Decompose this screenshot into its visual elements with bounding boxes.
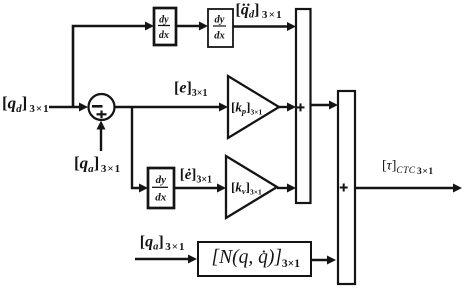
- wire block1 to block2: [176, 22, 208, 31]
- wire e branch down to dy/dx U3: [132, 107, 148, 193]
- summing block S1: [296, 9, 311, 203]
- summing junction: [89, 94, 115, 120]
- wire qa to N block: [135, 255, 197, 264]
- label qdd: [236, 1, 283, 21]
- svg-text:dx: dx: [155, 191, 167, 203]
- block dy/dx U3: [148, 168, 174, 208]
- wire tau output: [355, 184, 462, 193]
- plus S2: [340, 184, 348, 192]
- svg-text:dx: dx: [159, 30, 169, 41]
- svg-text:dy: dy: [215, 15, 225, 26]
- wire qdd to summing block S1: [233, 22, 296, 31]
- block dy/dx U1: [154, 8, 176, 45]
- svg-text:dx: dx: [214, 31, 225, 42]
- node qd label: [2, 94, 50, 116]
- wire e: [115, 103, 229, 112]
- label e: [174, 80, 207, 100]
- wire edot: [174, 184, 226, 193]
- wire kp to summing block S1: [279, 103, 296, 112]
- label tau: [382, 158, 434, 176]
- wire qa up into summing junction: [97, 121, 106, 152]
- wire kv to summing block S1: [277, 184, 296, 193]
- svg-text:dy: dy: [159, 14, 169, 25]
- wire S1 to S2: [311, 101, 339, 110]
- block dy/dx U2: [208, 9, 233, 47]
- wire N to summing block S2: [311, 256, 336, 265]
- plus S1: [297, 103, 305, 111]
- label edot: [180, 167, 212, 185]
- svg-text:dy: dy: [156, 174, 167, 186]
- label qa (to N block): [140, 233, 186, 253]
- label qa (feedback): [74, 154, 121, 176]
- gain kp: [228, 76, 279, 138]
- wire qd branch up to dy/dx: [73, 22, 154, 108]
- summing block S2: [338, 91, 355, 284]
- block N(q,qdot): [198, 242, 311, 276]
- gain kv: [226, 156, 277, 218]
- wire qd input: [49, 103, 88, 112]
